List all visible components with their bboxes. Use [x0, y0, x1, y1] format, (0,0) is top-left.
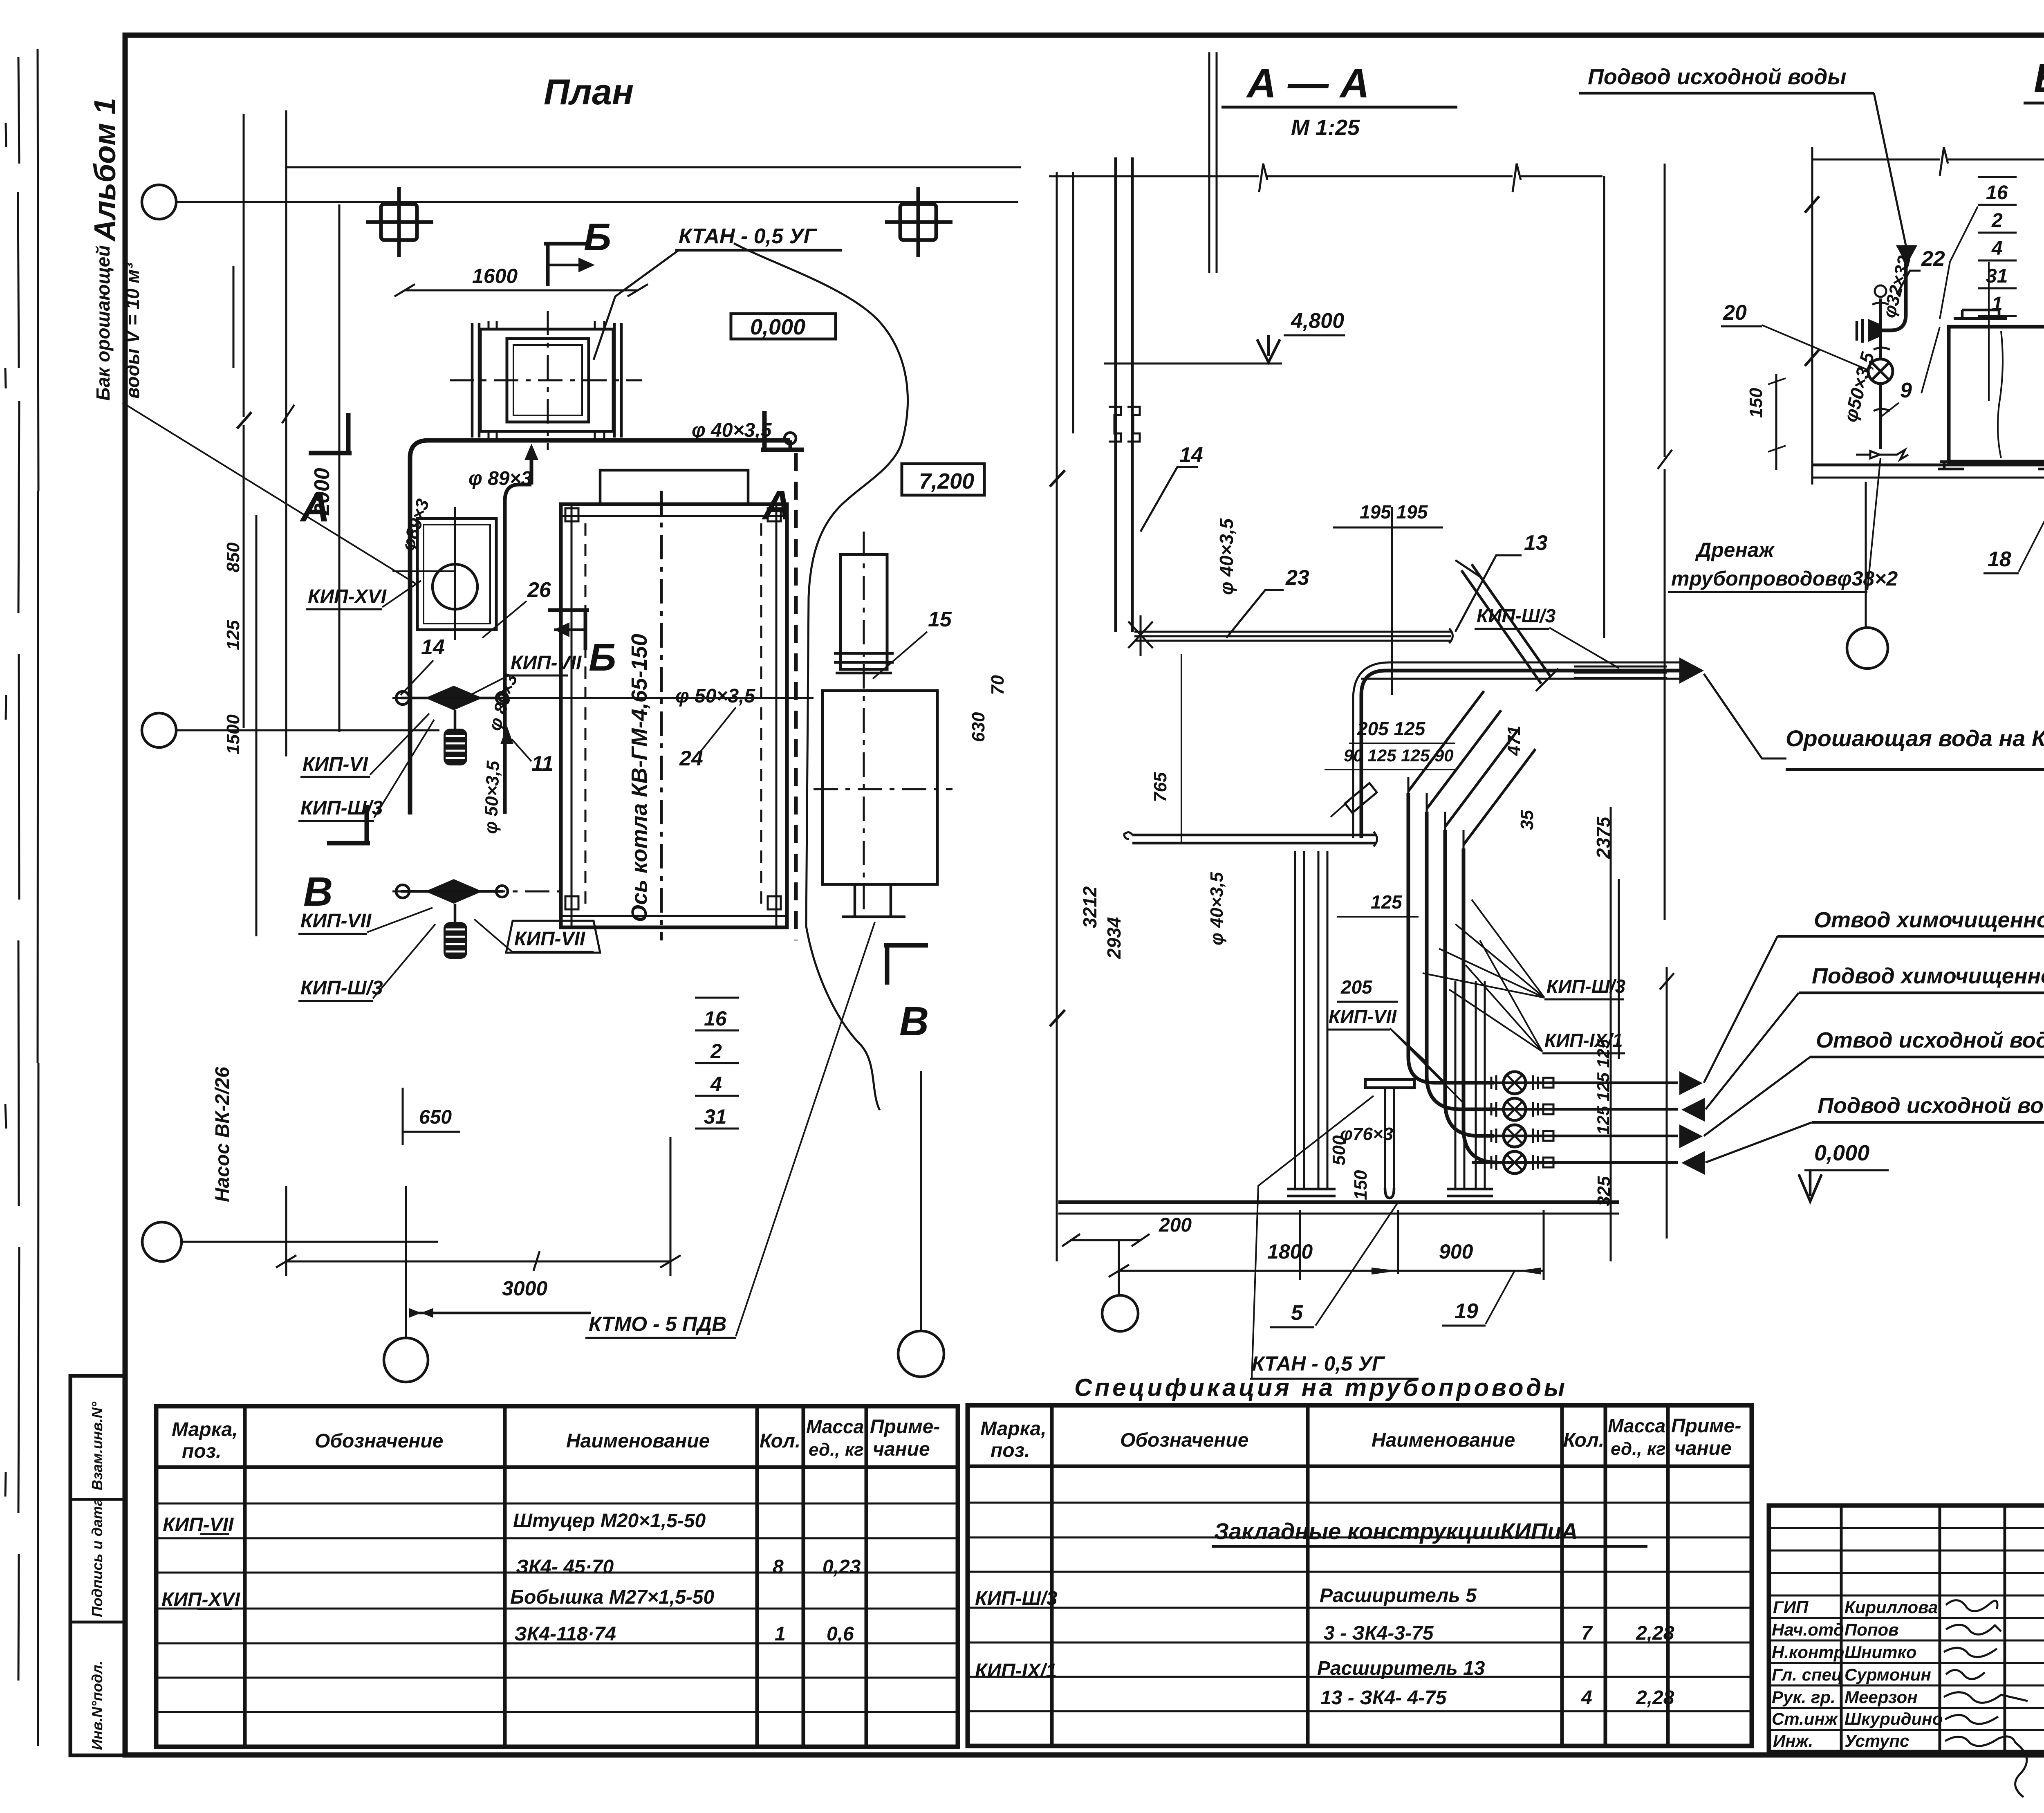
- svg-text:205: 205: [1340, 976, 1373, 998]
- svg-text:125: 125: [1371, 891, 1403, 913]
- svg-text:КИП-VII: КИП-VII: [514, 928, 586, 950]
- svg-text:В: В: [899, 998, 929, 1044]
- svg-text:26: 26: [527, 578, 551, 602]
- svg-text:Подпись и дата: Подпись и дата: [89, 1498, 105, 1617]
- svg-text:9: 9: [1900, 379, 1912, 402]
- svg-text:КИП-ХVI: КИП-ХVI: [161, 1589, 241, 1611]
- svg-text:850: 850: [223, 542, 243, 572]
- svg-text:13 - ЗК4- 4-75: 13 - ЗК4- 4-75: [1320, 1687, 1447, 1709]
- svg-text:Альбом 1: Альбом 1: [88, 98, 122, 242]
- svg-text:2: 2: [710, 1040, 722, 1063]
- svg-text:План: План: [544, 72, 634, 112]
- svg-text:Б: Б: [584, 215, 611, 259]
- svg-text:200: 200: [1159, 1214, 1192, 1236]
- svg-text:ед., кг: ед., кг: [809, 1440, 864, 1460]
- svg-text:Бак орошающей: Бак орошающей: [92, 245, 114, 401]
- svg-text:125: 125: [223, 620, 243, 650]
- svg-text:3000: 3000: [502, 1277, 547, 1300]
- svg-text:11: 11: [531, 752, 554, 776]
- svg-text:500: 500: [1329, 1135, 1349, 1165]
- svg-text:765: 765: [1150, 772, 1170, 802]
- svg-text:22: 22: [1921, 247, 1945, 271]
- svg-text:А — А: А — А: [1246, 61, 1369, 106]
- svg-text:КИП-VII: КИП-VII: [163, 1514, 234, 1536]
- svg-text:2934: 2934: [1103, 917, 1125, 959]
- svg-text:КТАН - 0,5 УГ: КТАН - 0,5 УГ: [679, 224, 818, 248]
- svg-text:Отвод исходной воды φ 40×3: Отвод исходной воды φ 40×3,5: [1816, 1028, 2044, 1052]
- svg-text:Обозначение: Обозначение: [315, 1430, 443, 1452]
- svg-text:205 125: 205 125: [1357, 718, 1426, 739]
- svg-text:Ст.инж: Ст.инж: [1772, 1709, 1838, 1728]
- svg-text:Приме-: Приме-: [870, 1416, 940, 1438]
- svg-text:1600: 1600: [472, 265, 518, 287]
- svg-text:16: 16: [704, 1007, 727, 1030]
- svg-text:Ось котла КВ-ГМ-4,65-150: Ось котла КВ-ГМ-4,65-150: [627, 634, 652, 922]
- svg-text:3212: 3212: [1079, 886, 1100, 928]
- svg-text:Спецификация на трубопрово: Спецификация на трубопроводы: [1074, 1374, 1565, 1401]
- svg-text:Подвод исходной воды: Подвод исходной воды: [1588, 65, 1847, 89]
- svg-text:Расширитель 13: Расширитель 13: [1317, 1658, 1485, 1679]
- svg-text:16: 16: [1986, 182, 2008, 204]
- svg-text:φ 40×3,5: φ 40×3,5: [1207, 872, 1227, 945]
- svg-text:Приме-: Приме-: [1671, 1415, 1741, 1437]
- svg-text:0,000: 0,000: [750, 315, 805, 339]
- svg-text:Закладные конструкцииКИПиА: Закладные конструкцииКИПиА: [1214, 1518, 1578, 1544]
- svg-text:КИП-VI: КИП-VI: [303, 754, 369, 775]
- svg-text:7: 7: [1581, 1622, 1593, 1644]
- svg-text:Штуцер М20×1,5-50: Штуцер М20×1,5-50: [513, 1510, 706, 1532]
- svg-text:Сурмонин: Сурмонин: [1845, 1665, 1931, 1684]
- svg-text:КИП-Ш/3: КИП-Ш/3: [300, 977, 383, 999]
- svg-text:125 125 125: 125 125 125: [1594, 1039, 1613, 1135]
- svg-text:23: 23: [1285, 566, 1309, 590]
- svg-text:471: 471: [1504, 726, 1524, 756]
- svg-text:2,28: 2,28: [1636, 1687, 1674, 1709]
- svg-text:150: 150: [1746, 388, 1766, 418]
- svg-text:24: 24: [679, 747, 703, 770]
- svg-text:Н.контр: Н.контр: [1772, 1642, 1844, 1662]
- svg-text:Взам.инв.N°: Взам.инв.N°: [89, 1402, 105, 1491]
- svg-text:0,000: 0,000: [1814, 1141, 1869, 1165]
- svg-text:КИП-VII: КИП-VII: [300, 910, 372, 932]
- svg-text:14: 14: [1179, 443, 1203, 467]
- svg-text:2: 2: [1991, 210, 2003, 231]
- svg-text:Уступс: Уступс: [1845, 1731, 1909, 1750]
- svg-text:Бобышка М27×1,5-50: Бобышка М27×1,5-50: [510, 1586, 714, 1608]
- svg-text:195 195: 195 195: [1360, 501, 1428, 523]
- svg-text:чание: чание: [873, 1438, 930, 1460]
- svg-text:φ 89×3: φ 89×3: [468, 468, 532, 489]
- svg-text:900: 900: [1439, 1240, 1473, 1263]
- svg-text:φ 40×3,5: φ 40×3,5: [1216, 518, 1237, 595]
- svg-text:Дренаж: Дренаж: [1695, 539, 1775, 561]
- svg-text:поз.: поз.: [991, 1440, 1030, 1461]
- svg-text:2375: 2375: [1593, 816, 1614, 859]
- svg-text:φ 50×3,5: φ 50×3,5: [481, 760, 503, 834]
- svg-text:4: 4: [710, 1073, 722, 1095]
- svg-text:20: 20: [1723, 301, 1747, 325]
- svg-text:воды V = 10 м³: воды V = 10 м³: [122, 263, 143, 399]
- svg-text:2,28: 2,28: [1636, 1622, 1674, 1644]
- svg-text:150: 150: [1351, 1170, 1371, 1200]
- svg-text:35: 35: [1517, 810, 1537, 830]
- svg-text:Масса: Масса: [806, 1416, 864, 1437]
- svg-text:КИП-IХ/1: КИП-IХ/1: [975, 1660, 1057, 1682]
- svg-text:Инв.N°подл.: Инв.N°подл.: [89, 1661, 105, 1750]
- svg-text:14: 14: [421, 635, 445, 659]
- svg-text:Шкуридино: Шкуридино: [1845, 1709, 1943, 1728]
- svg-text:поз.: поз.: [182, 1441, 221, 1462]
- svg-text:Насос ВК-2/26: Насос ВК-2/26: [212, 1067, 233, 1202]
- svg-text:Инж.: Инж.: [1773, 1731, 1813, 1750]
- svg-text:630: 630: [968, 712, 988, 742]
- svg-text:70: 70: [988, 675, 1008, 695]
- svg-text:90 125 125 90: 90 125 125 90: [1344, 746, 1454, 765]
- svg-text:15: 15: [928, 608, 952, 631]
- svg-text:φ 50×3,5: φ 50×3,5: [675, 685, 756, 707]
- svg-text:КИП-ХVI: КИП-ХVI: [308, 586, 387, 608]
- svg-text:КИП-VII: КИП-VII: [1329, 1006, 1397, 1027]
- svg-text:А: А: [299, 485, 330, 530]
- svg-text:4,800: 4,800: [1291, 309, 1344, 333]
- svg-text:Меерзон: Меерзон: [1845, 1687, 1918, 1707]
- svg-text:Наименование: Наименование: [566, 1430, 710, 1452]
- svg-text:КИП-Ш/3: КИП-Ш/3: [300, 797, 383, 819]
- svg-text:0,23: 0,23: [823, 1556, 861, 1578]
- svg-text:4: 4: [1991, 238, 2003, 259]
- svg-text:Нач.отд: Нач.отд: [1772, 1620, 1844, 1639]
- svg-text:трубопроводовφ38×2: трубопроводовφ38×2: [1671, 567, 1898, 590]
- svg-text:1800: 1800: [1267, 1240, 1313, 1263]
- svg-text:чание: чание: [1674, 1438, 1732, 1459]
- svg-text:ЗК4-118·74: ЗК4-118·74: [514, 1623, 616, 1645]
- svg-text:Марка,: Марка,: [980, 1418, 1047, 1440]
- svg-text:1: 1: [1992, 293, 2003, 315]
- svg-text:18: 18: [1988, 547, 2011, 571]
- svg-text:М 1:25: М 1:25: [1291, 115, 1360, 140]
- svg-text:Б — Б: Б — Б: [2034, 55, 2044, 101]
- svg-text:КТМО - 5 ПДВ: КТМО - 5 ПДВ: [589, 1313, 726, 1335]
- svg-text:Обозначение: Обозначение: [1120, 1429, 1248, 1451]
- svg-text:Марка,: Марка,: [172, 1419, 238, 1441]
- svg-text:5: 5: [1291, 1301, 1303, 1325]
- svg-text:8: 8: [773, 1556, 784, 1578]
- svg-text:19: 19: [1455, 1299, 1478, 1323]
- svg-text:7,200: 7,200: [919, 469, 974, 494]
- svg-text:325: 325: [1594, 1176, 1614, 1206]
- svg-text:ЗК4- 45·70: ЗК4- 45·70: [516, 1556, 614, 1578]
- svg-text:Наименование: Наименование: [1372, 1429, 1515, 1451]
- svg-text:КИП-Ш/3: КИП-Ш/3: [975, 1588, 1058, 1609]
- svg-text:Рук. гр.: Рук. гр.: [1772, 1687, 1836, 1707]
- svg-text:Масса: Масса: [1608, 1415, 1665, 1436]
- svg-text:Расширитель 5: Расширитель 5: [1320, 1585, 1477, 1607]
- svg-text:Подвод химочищенной воды φ: Подвод химочищенной воды φ 40×3,5: [1812, 964, 2044, 988]
- svg-text:Подвод исходной воды φ 40×3: Подвод исходной воды φ 40×3,5: [1818, 1093, 2044, 1118]
- svg-text:1500: 1500: [223, 714, 243, 754]
- svg-text:13: 13: [1524, 531, 1548, 555]
- svg-text:4: 4: [1581, 1687, 1592, 1709]
- svg-text:ед., кг: ед., кг: [1611, 1439, 1666, 1459]
- svg-text:Гл. спец: Гл. спец: [1772, 1665, 1842, 1684]
- svg-text:КИП-Ш/3: КИП-Ш/3: [1546, 976, 1626, 997]
- svg-text:Кириллова: Кириллова: [1845, 1598, 1938, 1617]
- svg-text:3 - ЗК4-3-75: 3 - ЗК4-3-75: [1324, 1622, 1434, 1644]
- svg-text:Попов: Попов: [1845, 1620, 1899, 1639]
- svg-text:1: 1: [775, 1623, 786, 1645]
- svg-text:Орошающая вода на КТМО - 5П: Орошающая вода на КТМО - 5ПДВ: [1786, 725, 2044, 751]
- svg-text:Кол.: Кол.: [760, 1430, 800, 1452]
- svg-text:Шнитко: Шнитко: [1845, 1642, 1916, 1662]
- svg-text:Отвод химочищенной воды φ: Отвод химочищенной воды φ 40×3,5: [1814, 908, 2044, 932]
- svg-text:ГИП: ГИП: [1773, 1598, 1809, 1617]
- svg-text:Кол.: Кол.: [1563, 1429, 1604, 1451]
- svg-text:0,6: 0,6: [827, 1623, 854, 1645]
- svg-text:В: В: [303, 869, 333, 915]
- svg-text:А: А: [761, 482, 792, 528]
- svg-text:КТАН - 0,5 УГ: КТАН - 0,5 УГ: [1252, 1352, 1385, 1375]
- svg-text:650: 650: [419, 1106, 452, 1128]
- svg-text:φ 40×3,5: φ 40×3,5: [692, 420, 772, 441]
- svg-text:Б: Б: [589, 636, 616, 679]
- svg-text:31: 31: [704, 1105, 727, 1128]
